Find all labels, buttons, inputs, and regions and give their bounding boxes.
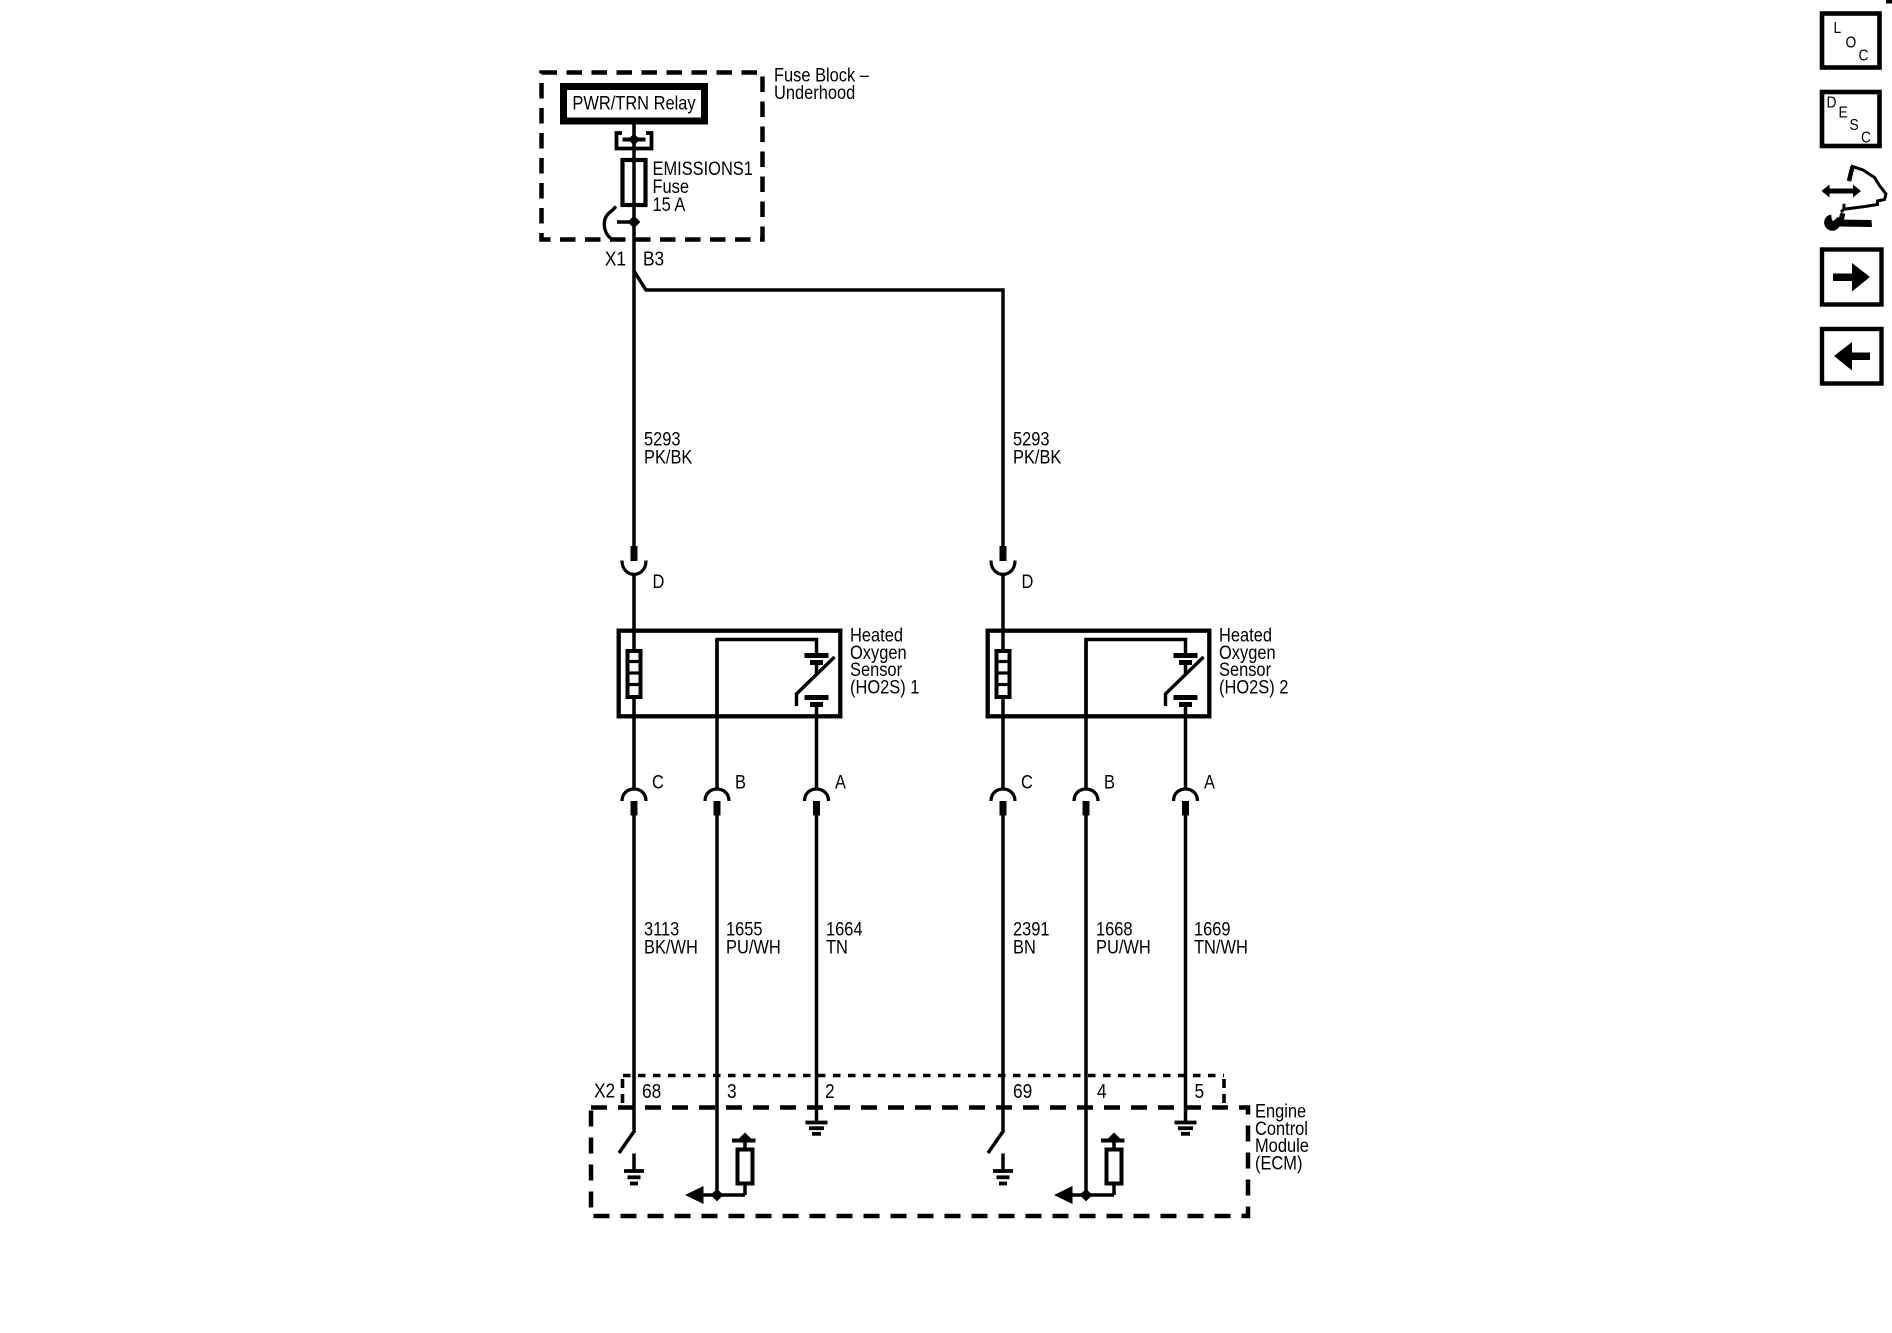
- svg-text:C: C: [1861, 129, 1871, 147]
- svg-text:BK/WH: BK/WH: [644, 936, 698, 957]
- svg-text:C: C: [1021, 771, 1033, 792]
- svg-text:E: E: [1839, 104, 1848, 122]
- svg-text:68: 68: [642, 1080, 661, 1102]
- svg-text:X1: X1: [605, 247, 626, 269]
- svg-text:C: C: [1859, 47, 1869, 65]
- svg-text:4: 4: [1097, 1080, 1107, 1102]
- svg-text:C: C: [652, 771, 664, 792]
- svg-text:L: L: [1834, 19, 1842, 37]
- svg-text:PK/BK: PK/BK: [644, 446, 693, 467]
- svg-text:B: B: [1104, 771, 1115, 792]
- svg-text:B3: B3: [643, 247, 664, 269]
- svg-text:Underhood: Underhood: [774, 82, 855, 103]
- svg-text:(HO2S) 2: (HO2S) 2: [1219, 676, 1288, 697]
- svg-text:S: S: [1850, 116, 1859, 134]
- svg-text:TN: TN: [826, 936, 848, 957]
- svg-text:D: D: [1827, 94, 1837, 112]
- svg-text:PWR/TRN Relay: PWR/TRN Relay: [572, 92, 695, 113]
- svg-text:X2: X2: [594, 1079, 615, 1101]
- svg-text:A: A: [1204, 771, 1215, 792]
- svg-text:PK/BK: PK/BK: [1013, 446, 1062, 467]
- svg-text:69: 69: [1013, 1080, 1032, 1102]
- svg-text:5: 5: [1195, 1080, 1205, 1102]
- svg-text:D: D: [653, 571, 665, 592]
- svg-text:O: O: [1846, 34, 1857, 52]
- svg-text:(HO2S) 1: (HO2S) 1: [850, 676, 919, 697]
- svg-text:BN: BN: [1013, 936, 1036, 957]
- svg-text:2: 2: [825, 1080, 835, 1102]
- svg-text:PU/WH: PU/WH: [1096, 936, 1151, 957]
- svg-text:TN/WH: TN/WH: [1194, 936, 1248, 957]
- svg-text:B: B: [735, 771, 746, 792]
- svg-text:A: A: [835, 771, 846, 792]
- svg-text:3: 3: [727, 1080, 737, 1102]
- svg-text:15 A: 15 A: [653, 194, 686, 215]
- svg-text:PU/WH: PU/WH: [726, 936, 781, 957]
- svg-text:(ECM): (ECM): [1255, 1152, 1302, 1173]
- svg-text:D: D: [1022, 571, 1034, 592]
